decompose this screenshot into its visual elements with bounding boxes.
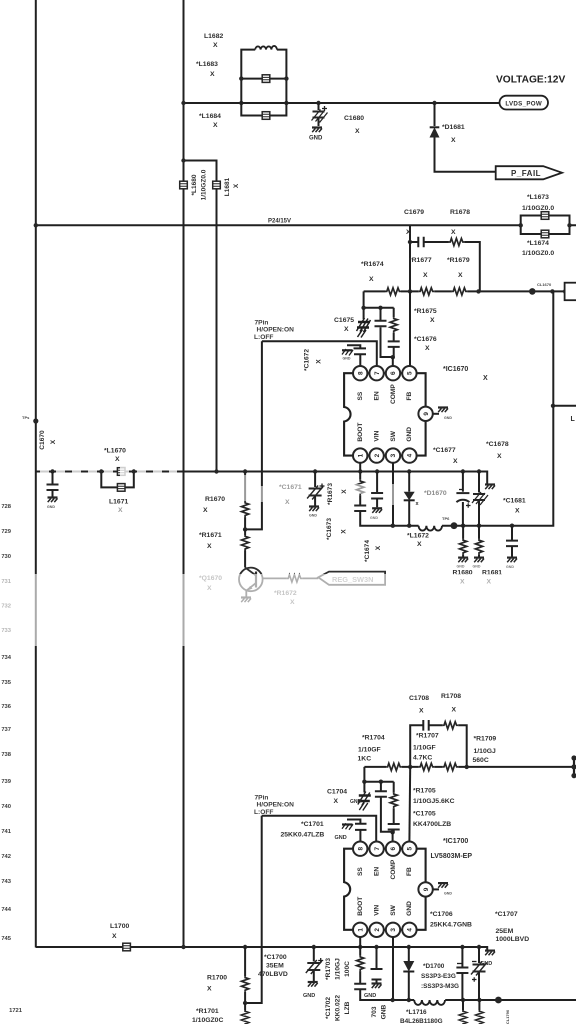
IC1670 pin 5 (402, 366, 416, 380)
svg-text:*R1704: *R1704 (362, 735, 385, 742)
label R1673 rotated (327, 483, 348, 505)
capacitor C1676 (381, 341, 400, 365)
net flag LVDS_POW (500, 96, 549, 110)
svg-text:L:OFF: L:OFF (254, 334, 273, 341)
svg-text:R1678: R1678 (450, 209, 470, 216)
svg-text:100C: 100C (344, 961, 351, 977)
svg-text:25EM: 25EM (496, 928, 514, 935)
svg-text:1/10GF: 1/10GF (413, 745, 436, 752)
svg-text:*IC1700: *IC1700 (443, 838, 468, 845)
svg-text:*C1677: *C1677 (433, 447, 456, 454)
capacitor C1705 component (388, 824, 400, 841)
junction dots series2 (408, 765, 469, 769)
resistor R1680 (457, 526, 469, 569)
svg-text::SS3P3-M3G: :SS3P3-M3G (421, 983, 459, 990)
svg-text:GND: GND (335, 835, 347, 841)
svg-text:B4L26B1180G: B4L26B1180G (400, 1018, 443, 1024)
label L1680 rotated (191, 169, 208, 200)
wire: series line y291.4 (364, 290, 576, 292)
ferrite bead L1674 (541, 230, 549, 238)
svg-text:1/10GJ: 1/10GJ (335, 958, 342, 980)
svg-text:*R1707: *R1707 (416, 733, 439, 740)
svg-text:1/10GZ0.0: 1/10GZ0.0 (522, 205, 554, 212)
label C1703 rotated (371, 1004, 388, 1019)
svg-text:740: 740 (1, 804, 11, 810)
svg-text:X: X (452, 707, 457, 714)
IC1670 pin 3 (386, 448, 400, 462)
svg-text:X: X (344, 326, 349, 333)
junction dots rail2 (181, 945, 481, 949)
svg-text:X: X (341, 529, 348, 534)
svg-text:1000LBVD: 1000LBVD (496, 936, 530, 943)
label R1675 (414, 308, 437, 324)
resistor R1678 (449, 238, 465, 245)
svg-text:GND: GND (444, 892, 452, 896)
svg-text:470LBVD: 470LBVD (258, 971, 288, 978)
label L1673 (522, 194, 554, 212)
IC1670 pin names rotated (357, 384, 413, 442)
wire: node line y307.8 (364, 291, 394, 307)
svg-text:X: X (207, 543, 212, 550)
wire: EN line (262, 341, 377, 366)
IC1700 pin 9 (418, 882, 432, 896)
svg-text:734: 734 (1, 655, 11, 661)
IC1700 pin 3 (386, 923, 400, 937)
svg-text:6: 6 (390, 846, 397, 850)
svg-text:C1704: C1704 (327, 789, 347, 796)
IC1700 pin 4 (402, 923, 416, 937)
svg-text:*D1681: *D1681 (442, 124, 465, 131)
capacitor C1704 to GND crossed (358, 782, 371, 811)
capacitor C1670 to GND (47, 472, 59, 510)
capacitor C1700 crossed to GND (303, 947, 323, 999)
node TPs on left bus (33, 418, 38, 423)
capacitor C1675 to GND crossed (357, 308, 371, 338)
label C1681 (503, 498, 526, 515)
svg-text:X: X (115, 456, 120, 463)
label R1700 (207, 975, 227, 993)
label R1701 (192, 1008, 223, 1024)
svg-text:GND: GND (457, 565, 465, 569)
inductor box L1673 L1674 on P24 (519, 216, 572, 235)
label C1706 (430, 911, 472, 929)
svg-text:VOLTAGE:12V: VOLTAGE:12V (496, 75, 565, 86)
svg-text:9: 9 (423, 887, 430, 891)
label L1674 (522, 240, 554, 257)
IC1700 pin 1 (353, 923, 367, 937)
svg-text:TPs: TPs (22, 415, 30, 420)
label R1705 (413, 788, 455, 806)
svg-text:1: 1 (357, 928, 364, 932)
svg-text:*R1675: *R1675 (414, 308, 437, 315)
svg-text:X: X (451, 137, 456, 144)
svg-text:1/10GZ0.0: 1/10GZ0.0 (522, 250, 554, 257)
svg-text:X: X (355, 128, 360, 135)
label L1700 (110, 923, 129, 940)
svg-text:*D1670: *D1670 (424, 490, 447, 497)
svg-text:2: 2 (374, 928, 381, 932)
svg-text:X: X (483, 375, 488, 382)
diode D1700 (403, 947, 414, 1000)
svg-text:*R1673: *R1673 (327, 483, 334, 505)
IC1700 pin 7 (369, 842, 383, 856)
wire: P24/15V rail y225.3 (36, 224, 576, 226)
wire: 12V output line y103 (184, 102, 500, 104)
IC1700 pin 5 (402, 842, 416, 856)
label C1674 rotated (364, 540, 382, 562)
label L1670 (104, 448, 126, 464)
test point CL1790 (495, 997, 502, 1004)
svg-text:*R1701: *R1701 (196, 1008, 219, 1015)
svg-text:X: X (430, 317, 435, 324)
resistor R1677 (419, 288, 435, 295)
svg-text:X: X (213, 42, 218, 49)
svg-text:1/10GZ0.0: 1/10GZ0.0 (201, 169, 208, 200)
svg-text:X: X (341, 489, 348, 494)
svg-text:*R1677: *R1677 (409, 257, 432, 264)
wire: EN2 vertical to R1700 (245, 816, 262, 1003)
svg-text:KK0.022: KK0.022 (335, 995, 342, 1021)
resistor R1709 (443, 763, 459, 770)
capacitor leg2 x380.9 (375, 782, 393, 832)
label R1671 (199, 532, 222, 550)
svg-text:P_FAIL: P_FAIL (511, 169, 541, 178)
svg-text:*C1673: *C1673 (326, 518, 333, 540)
svg-text:*C1681: *C1681 (503, 498, 526, 505)
label L1671 (109, 499, 128, 515)
svg-text:R1670: R1670 (205, 496, 225, 503)
connector pin numbers left edge (1, 504, 22, 1014)
svg-text:GND: GND (473, 565, 481, 569)
label R1672 gray (274, 590, 297, 606)
svg-text:3: 3 (390, 928, 397, 932)
label C1671 gray (279, 484, 302, 506)
svg-text:730: 730 (1, 554, 11, 560)
label C1672 rotated (304, 349, 323, 371)
svg-text:5: 5 (407, 846, 414, 850)
resistor R1672 gray (263, 575, 319, 582)
rail GND stub (485, 485, 495, 490)
label R1704 (358, 735, 385, 763)
wire: EN vertical to Q1670 (245, 341, 262, 529)
wire: EN2 line (262, 816, 377, 842)
svg-text:*R1703: *R1703 (325, 958, 332, 980)
svg-text:*C1707: *C1707 (495, 911, 518, 918)
capacitor C1678 crossed (472, 472, 488, 526)
svg-text:SW: SW (390, 904, 397, 915)
wire: pin3 SW2 lead (392, 937, 394, 1000)
svg-text:4.7KC: 4.7KC (413, 755, 432, 762)
wire: second bus vertical x183.5 (183, 0, 185, 948)
svg-text:GND: GND (309, 514, 317, 518)
wire: feedback branch y242 (410, 225, 480, 291)
label L1672 (407, 533, 429, 549)
resistor below SW2 left (459, 1000, 466, 1024)
svg-text:1/10GF: 1/10GF (358, 747, 381, 754)
svg-text:GND: GND (303, 993, 315, 999)
IC1670 pin 2 (369, 448, 383, 462)
svg-text:*R1674: *R1674 (361, 261, 384, 268)
resistor R1700 (242, 947, 249, 1005)
svg-text:4: 4 (407, 928, 414, 932)
ferrite bead L1680 (180, 181, 188, 189)
svg-text:25KK0.47LZB: 25KK0.47LZB (281, 832, 325, 839)
svg-text:VIN: VIN (373, 905, 380, 916)
svg-text:H/OPEN:ON: H/OPEN:ON (257, 802, 295, 809)
capacitor C1673 (354, 506, 393, 526)
connector box right edge (565, 283, 576, 301)
capacitor C1674 VIN decoupling (370, 472, 383, 521)
wire: FB2 pin5 vertical (408, 767, 411, 842)
wire: SW output line y525.7 (393, 291, 554, 525)
svg-text:GND: GND (350, 799, 362, 805)
svg-text:C1708: C1708 (409, 695, 429, 702)
svg-text:X: X (50, 439, 57, 444)
svg-text:SS: SS (357, 391, 364, 400)
label C1677 (433, 447, 458, 465)
diode D1670 (404, 472, 420, 526)
svg-text:BOOT: BOOT (357, 423, 364, 442)
net flag REG_SW3N gray (318, 572, 385, 585)
svg-text:1/10GJ5.6KC: 1/10GJ5.6KC (413, 798, 455, 805)
junction dots SW line (391, 404, 556, 528)
label C1701 (281, 821, 347, 841)
svg-text:1: 1 (357, 453, 364, 457)
resistor R1704 (386, 763, 402, 770)
label D1700 (421, 963, 459, 990)
svg-text:L:OFF: L:OFF (254, 809, 273, 816)
resistor R1679 (452, 288, 468, 295)
ferrite bead L1683 (262, 75, 270, 83)
svg-text:GND: GND (309, 136, 323, 142)
label R1703 rotated (325, 958, 351, 980)
svg-text:GND: GND (364, 993, 376, 999)
IC1670 pin 7 (369, 366, 383, 380)
svg-text:*C1705: *C1705 (413, 811, 436, 818)
svg-text:GND: GND (343, 357, 351, 361)
svg-text:R1700: R1700 (207, 975, 227, 982)
svg-text:X: X (453, 458, 458, 465)
svg-text:*R1671: *R1671 (199, 532, 222, 539)
ferrite bead L1681 (213, 181, 221, 189)
svg-text:FB: FB (406, 391, 413, 400)
svg-text:1/10GJ: 1/10GJ (474, 748, 497, 755)
svg-text:*C1700: *C1700 (264, 954, 287, 961)
label C1680 (344, 115, 364, 135)
svg-text:X: X (210, 71, 215, 78)
svg-text:LZB: LZB (344, 1001, 351, 1014)
svg-text:735: 735 (1, 680, 11, 686)
svg-text:C1675: C1675 (334, 317, 354, 324)
IC1670 pin 9 (418, 407, 432, 421)
label L1683 (196, 61, 218, 78)
label R1670 (203, 496, 225, 514)
junction dots series line (408, 240, 568, 294)
resistor R1670 (242, 472, 249, 532)
svg-text:1KC: 1KC (358, 756, 372, 763)
capacitor C1702 (354, 984, 392, 1000)
svg-text:*L1673: *L1673 (527, 194, 549, 201)
label L1716 (400, 1009, 443, 1024)
svg-text:X: X (417, 541, 422, 548)
svg-text:35EM: 35EM (266, 963, 284, 970)
wire: input rail y471.5 (36, 472, 487, 484)
IC1700 pin 2 (369, 923, 383, 937)
label R1677 (409, 257, 432, 279)
note 7Pin H/OPEN:ON L:OFF 2 (254, 795, 294, 816)
wire: FB pin5 vertical (409, 291, 411, 365)
label C1675 (334, 317, 354, 333)
svg-text:*R1679: *R1679 (447, 257, 470, 264)
svg-text:*C1674: *C1674 (364, 540, 371, 562)
svg-text:GND: GND (444, 416, 452, 420)
svg-text:X: X (334, 798, 339, 805)
label C1676 (414, 336, 437, 352)
watermark band lower (0, 574, 576, 646)
svg-text:*R1705: *R1705 (413, 788, 436, 795)
capacitor C1680 to GND (309, 103, 328, 142)
ferrite bead L1673 (541, 212, 549, 220)
label L1684 (199, 113, 221, 129)
svg-text:X: X (406, 229, 411, 236)
svg-text:*C1672: *C1672 (304, 349, 311, 371)
svg-text:738: 738 (1, 752, 11, 758)
svg-text:X: X (423, 272, 428, 279)
svg-text:L1671: L1671 (109, 499, 128, 506)
svg-text:X: X (207, 986, 212, 993)
label C1708 (409, 695, 429, 715)
inductor L1716 (414, 1000, 445, 1005)
note 7Pin H/OPEN:ON L:OFF (254, 320, 294, 341)
IC1670 pin 6 (386, 366, 400, 380)
svg-text:741: 741 (1, 829, 11, 835)
svg-text:EN: EN (373, 867, 380, 876)
ferrite bead L1671 (117, 484, 125, 492)
capacitor C1672 crossed to GND at SS (342, 345, 366, 366)
IC1700 body (344, 849, 426, 930)
resistor R1675 (390, 308, 397, 342)
capacitor C1677 electrolytic (456, 472, 470, 526)
svg-text:*D1700: *D1700 (423, 963, 445, 970)
inductor pair L1680 L1681 verticals (181, 158, 216, 471)
svg-text:*IC1670: *IC1670 (443, 366, 468, 373)
inductor L1682 box with L1683 L1684 (239, 46, 288, 116)
ferrite bead L1670 (117, 468, 125, 476)
svg-text:9: 9 (423, 412, 430, 416)
svg-text:728: 728 (1, 504, 11, 510)
label C1673 rotated (326, 518, 348, 540)
label C1707 (495, 911, 529, 943)
svg-text:X: X (419, 708, 424, 715)
svg-text:L1681: L1681 (224, 177, 231, 196)
label R1678 (450, 209, 470, 236)
svg-text:X: X (458, 272, 463, 279)
resistor R1674 (386, 288, 402, 295)
transistor Q1670 gray (239, 568, 263, 603)
svg-text:C1679: C1679 (404, 209, 424, 216)
svg-text:TP6: TP6 (442, 516, 450, 521)
svg-text:X: X (515, 508, 520, 515)
label C1702 rotated (325, 995, 351, 1021)
resistor R1701 (242, 1003, 249, 1024)
resistor R1705 component (390, 782, 397, 824)
svg-text:3: 3 (390, 453, 397, 457)
label R1681 (482, 570, 502, 586)
IC1670 pin 8 (353, 366, 367, 380)
svg-text:703: 703 (371, 1006, 378, 1017)
svg-text:EN: EN (373, 391, 380, 400)
svg-text:7Pin: 7Pin (255, 320, 269, 327)
svg-text:*L1670: *L1670 (104, 448, 126, 455)
wire: SW output line 2 y1000 (393, 999, 576, 1001)
svg-text:X: X (369, 276, 374, 283)
svg-text:SS3P3-E3G: SS3P3-E3G (421, 973, 456, 980)
svg-text:739: 739 (1, 779, 11, 785)
resistor R1703 bootstrap (357, 937, 364, 984)
label R1709 (473, 736, 497, 765)
junction dots 12V line (181, 101, 436, 105)
label L1681 rotated (224, 177, 240, 196)
IC1670 pin 1 (353, 448, 367, 462)
test point TP6 (451, 522, 458, 529)
IC1670 pin 4 (402, 448, 416, 462)
label R1674 (361, 261, 384, 283)
svg-text:SW: SW (390, 430, 397, 441)
svg-text:X: X (316, 359, 323, 364)
ferrite bead L1684 (262, 112, 270, 120)
label C1679 (404, 209, 424, 236)
svg-text:4: 4 (407, 453, 414, 457)
svg-text:1721: 1721 (9, 1008, 23, 1014)
svg-text:8: 8 (357, 371, 364, 375)
svg-text:7Pin: 7Pin (255, 795, 269, 802)
svg-text:*L1672: *L1672 (407, 533, 429, 540)
svg-text:CL1670: CL1670 (537, 282, 552, 287)
wire: branch 2 y725.3 (410, 725, 467, 767)
label R1707 (413, 733, 439, 762)
svg-text:*L1674: *L1674 (527, 240, 549, 247)
svg-text:*L1716: *L1716 (406, 1009, 427, 1016)
junction dots SW2 (390, 998, 481, 1002)
test point CL1670 (529, 288, 536, 295)
IC1700 pin 8 (353, 842, 367, 856)
label L1682 (204, 33, 223, 49)
IC1700 pin 6 (386, 842, 400, 856)
wire: pin3 SW lead (392, 463, 394, 526)
svg-text:X: X (203, 507, 208, 514)
resistor R1707 (419, 763, 435, 770)
svg-text:5: 5 (407, 371, 414, 375)
label C1704 (327, 789, 362, 806)
diode D1681 (430, 103, 496, 172)
net flag P_FAIL (496, 166, 562, 179)
capacitor C1708 (423, 720, 428, 731)
svg-text:*L1683: *L1683 (196, 61, 218, 68)
capacitor C1681 (506, 526, 518, 569)
svg-text:L: L (571, 416, 576, 423)
rail2 GND stub (480, 951, 495, 967)
svg-text:H/OPEN:ON: H/OPEN:ON (257, 327, 295, 334)
svg-text:CL1790: CL1790 (505, 1009, 510, 1024)
svg-text:*C1676: *C1676 (414, 336, 437, 343)
svg-text:FB: FB (406, 867, 413, 876)
svg-text:25KK4.7GNB: 25KK4.7GNB (430, 922, 472, 929)
svg-text:P24/15V: P24/15V (268, 219, 291, 225)
wire: node line 2 y781.7 (364, 767, 393, 782)
label R1680 (453, 570, 473, 586)
svg-text:742: 742 (1, 854, 11, 860)
svg-text:729: 729 (1, 529, 11, 535)
